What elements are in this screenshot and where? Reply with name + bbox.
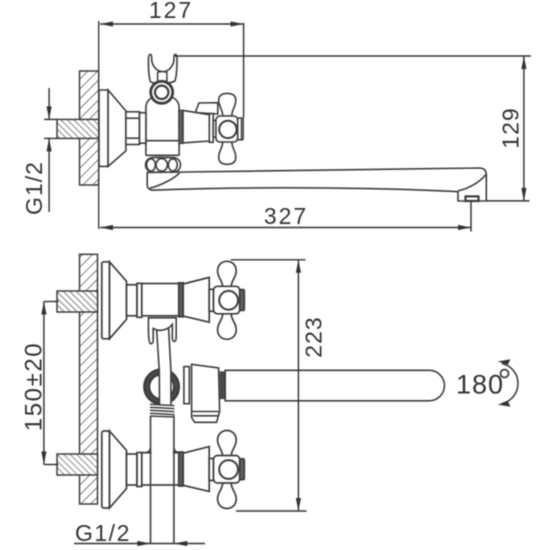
svg-text:G1/2: G1/2	[21, 161, 47, 215]
svg-text:129: 129	[497, 107, 523, 148]
shower holder fork	[148, 54, 177, 83]
arrow 127 left	[100, 21, 113, 26]
handle hub side view	[216, 116, 238, 142]
spout side view	[147, 168, 486, 201]
handle cap dark edge	[241, 119, 243, 140]
arrow G1/2 down	[47, 106, 52, 119]
arrow G1/2 right	[137, 541, 150, 546]
arrow 127 right	[231, 21, 244, 26]
diverter knob	[192, 364, 220, 422]
svg-text:150±20: 150±20	[20, 342, 47, 432]
escutcheon side view	[99, 90, 108, 166]
bonnet tab above cone (side view)	[195, 103, 218, 114]
ball bumps ring	[146, 158, 181, 173]
dimension G1/2 top view	[44, 88, 57, 212]
nut side view	[126, 112, 140, 145]
arrow 150 up	[41, 302, 46, 315]
handle side view: bottom teardrop	[219, 142, 236, 165]
valve ridge	[209, 114, 213, 143]
arrow 223 up	[296, 260, 301, 273]
top valve assembly	[102, 261, 245, 339]
wall line	[98, 21, 100, 229]
rotation arc arrow	[502, 364, 518, 404]
dark band at spout joint	[220, 371, 226, 399]
top inlet pipe hatched	[57, 291, 98, 312]
arrow G1/2 up	[47, 138, 52, 151]
arrow G1/2 left	[174, 541, 187, 546]
dimension 127 line	[100, 23, 244, 118]
svg-text:223: 223	[301, 316, 327, 357]
swivel ring	[145, 370, 179, 404]
wall plate hatched bottom view	[80, 254, 98, 504]
dimension 327	[100, 202, 471, 232]
knob ridge lines	[192, 411, 220, 413]
dimension 129	[175, 56, 531, 201]
svg-text:180: 180	[456, 370, 504, 400]
dimension G1/2 bottom	[74, 543, 205, 545]
dimension 150±20	[44, 302, 59, 465]
faucet body side view	[146, 97, 179, 156]
fork below top valve	[148, 318, 176, 344]
wedge inner curve	[150, 173, 180, 188]
arrow 327 right	[458, 225, 471, 230]
stem through ring	[157, 328, 171, 405]
svg-text:127: 127	[149, 0, 193, 23]
arrow 150 down	[41, 452, 46, 465]
tube-body fillet left	[145, 448, 151, 453]
arrow 223 down	[296, 498, 301, 511]
arrow 129 up	[521, 56, 526, 69]
spout tip underside curve	[458, 175, 486, 191]
holder ring	[151, 81, 173, 103]
valve cone right (side view)	[183, 110, 209, 142]
tube-body fillet right	[174, 448, 180, 453]
threads below ring	[150, 404, 174, 417]
connector side view	[140, 113, 146, 143]
wall plate hatched	[80, 71, 99, 185]
spout front view capsule	[225, 370, 444, 401]
aerator at spout tip	[466, 196, 479, 201]
handle cap side view	[238, 118, 243, 140]
arrow 327 left	[100, 225, 113, 230]
bottom inlet pipe hatched	[57, 454, 98, 475]
handle side view: top teardrop	[219, 93, 236, 116]
svg-text:327: 327	[264, 203, 308, 229]
dimension 223	[231, 260, 307, 511]
inlet pipe hatched	[57, 119, 99, 138]
arrow 129 down	[521, 188, 526, 201]
handle circle side view	[219, 121, 236, 138]
tube front face over valve	[152, 451, 173, 456]
dark band body-cone junction	[179, 110, 183, 143]
bottom valve assembly	[102, 431, 245, 509]
diverter collar	[184, 367, 189, 404]
svg-text:G1/2: G1/2	[75, 520, 131, 546]
shower outlet tube (in front of bottom valve)	[150, 416, 152, 544]
holder neck	[158, 72, 167, 82]
valve neck	[213, 121, 216, 138]
